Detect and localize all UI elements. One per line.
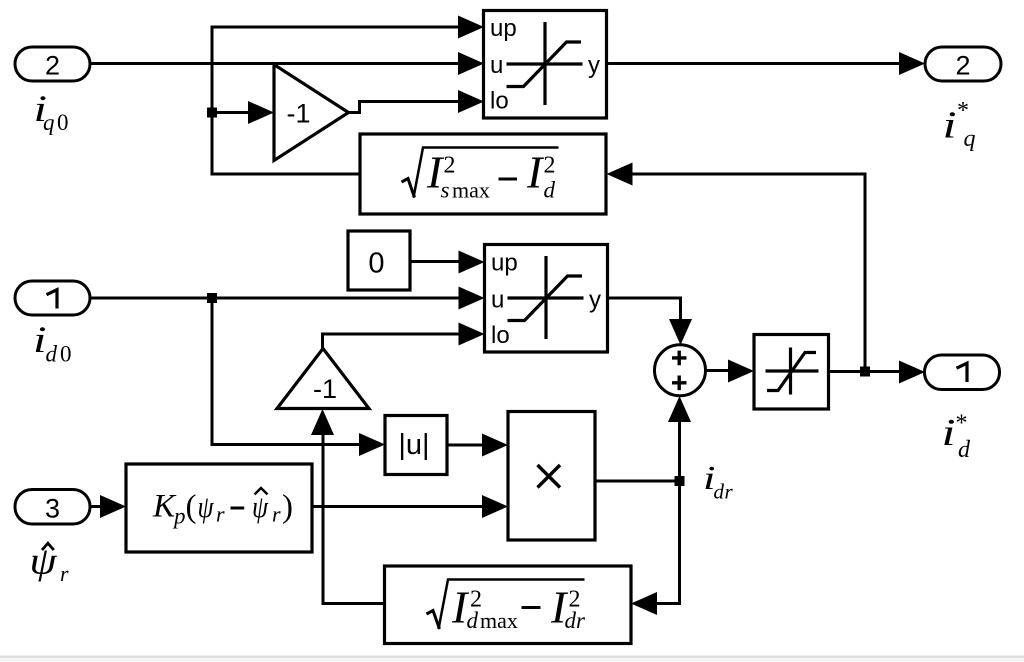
svg-text:2: 2 bbox=[955, 51, 970, 81]
svg-text:2: 2 bbox=[544, 153, 556, 179]
svg-text:r: r bbox=[272, 502, 281, 527]
svg-text:d: d bbox=[714, 480, 725, 504]
svg-text:d: d bbox=[565, 608, 577, 633]
svg-text:max: max bbox=[480, 608, 518, 633]
svg-text:*: * bbox=[956, 411, 968, 437]
svg-text:p: p bbox=[172, 504, 186, 529]
svg-text:(: ( bbox=[186, 489, 197, 525]
svg-text:ψ: ψ bbox=[198, 489, 215, 524]
svg-text:d: d bbox=[544, 178, 556, 203]
svg-text:max: max bbox=[452, 178, 490, 203]
svg-text:-1: -1 bbox=[313, 374, 337, 404]
svg-text:lo: lo bbox=[490, 88, 509, 115]
svg-text:d: d bbox=[467, 608, 479, 633]
svg-text:r: r bbox=[60, 561, 69, 586]
svg-text:3: 3 bbox=[45, 494, 60, 524]
svg-text:up: up bbox=[490, 15, 517, 42]
svg-text:d: d bbox=[958, 437, 971, 463]
svg-text:0: 0 bbox=[368, 248, 384, 280]
svg-text:r: r bbox=[725, 480, 734, 504]
svg-text:2: 2 bbox=[45, 51, 60, 81]
svg-text:q: q bbox=[964, 126, 976, 152]
svg-text:r: r bbox=[576, 608, 586, 633]
svg-text:i: i bbox=[942, 412, 956, 454]
svg-text:-1: -1 bbox=[286, 99, 310, 129]
svg-text:i: i bbox=[33, 320, 47, 361]
svg-text:*: * bbox=[957, 98, 969, 124]
svg-text:2: 2 bbox=[444, 153, 456, 179]
svg-text:r: r bbox=[216, 502, 225, 527]
svg-text:s: s bbox=[441, 178, 450, 203]
svg-text:u: u bbox=[491, 287, 504, 314]
svg-text:0: 0 bbox=[57, 110, 69, 135]
svg-text:up: up bbox=[491, 250, 518, 277]
svg-text:q: q bbox=[43, 110, 55, 135]
svg-text:i: i bbox=[943, 105, 957, 147]
svg-text:lo: lo bbox=[491, 322, 510, 349]
svg-text:u: u bbox=[490, 52, 503, 79]
svg-text:d: d bbox=[46, 342, 58, 367]
svg-text:|u|: |u| bbox=[398, 429, 429, 461]
svg-text:y: y bbox=[588, 52, 600, 79]
svg-text:y: y bbox=[589, 287, 601, 314]
svg-text:): ) bbox=[282, 489, 293, 525]
svg-text:0: 0 bbox=[60, 342, 72, 367]
svg-text:I: I bbox=[526, 147, 545, 198]
